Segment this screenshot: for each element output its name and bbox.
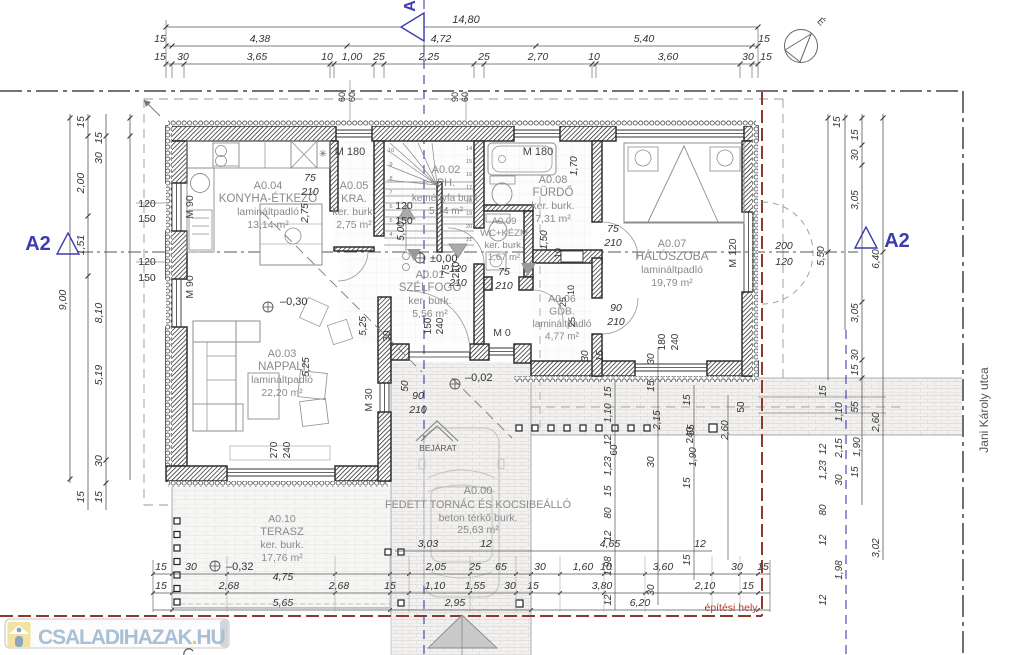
svg-text:4,72: 4,72: [431, 33, 452, 45]
svg-text:210: 210: [451, 261, 462, 278]
svg-text:15: 15: [154, 51, 166, 63]
svg-text:75: 75: [304, 172, 316, 184]
svg-text:6,40: 6,40: [871, 249, 882, 269]
svg-text:150: 150: [138, 272, 156, 284]
svg-text:1,00: 1,00: [342, 51, 363, 63]
svg-text:150: 150: [395, 215, 413, 227]
svg-text:210: 210: [603, 237, 622, 249]
svg-text:7: 7: [389, 190, 392, 196]
svg-text:2,00: 2,00: [75, 173, 87, 195]
svg-text:60: 60: [347, 92, 357, 102]
svg-text:A0.00: A0.00: [464, 485, 493, 497]
svg-text:10: 10: [321, 51, 333, 63]
svg-text:5: 5: [389, 218, 392, 224]
svg-text:15: 15: [757, 561, 769, 573]
svg-text:30: 30: [93, 152, 105, 164]
svg-text:ker. burk.: ker. burk.: [332, 206, 375, 218]
svg-text:2,25: 2,25: [418, 51, 440, 63]
svg-text:5,14 m²: 5,14 m²: [429, 206, 464, 217]
svg-text:55: 55: [850, 401, 861, 413]
svg-text:4,77 m²: 4,77 m²: [545, 332, 580, 343]
svg-text:7,31 m²: 7,31 m²: [535, 213, 571, 225]
svg-text:–0,02: –0,02: [465, 372, 493, 384]
svg-text:150: 150: [138, 213, 156, 225]
svg-text:25: 25: [567, 317, 577, 327]
svg-text:16: 16: [466, 172, 472, 178]
svg-text:15: 15: [682, 554, 693, 566]
svg-text:M 90: M 90: [184, 195, 196, 219]
svg-text:60: 60: [337, 92, 347, 102]
svg-text:15: 15: [75, 116, 87, 128]
svg-text:210: 210: [408, 404, 427, 416]
svg-text:–0,30: –0,30: [280, 296, 308, 308]
svg-text:5,50: 5,50: [816, 246, 827, 266]
svg-text:TERASZ: TERASZ: [260, 526, 304, 538]
svg-text:10: 10: [553, 248, 563, 258]
svg-text:19,79 m²: 19,79 m²: [651, 277, 693, 289]
svg-text:ker. burk.: ker. burk.: [408, 295, 451, 307]
svg-text:3,60: 3,60: [658, 51, 679, 63]
svg-text:120: 120: [395, 200, 413, 212]
svg-text:1,10: 1,10: [834, 402, 845, 422]
svg-text:8,10: 8,10: [93, 303, 105, 324]
svg-text:25: 25: [558, 297, 568, 307]
svg-text:építési hely: építési hely: [704, 602, 758, 614]
svg-text:3,02: 3,02: [871, 538, 882, 558]
svg-text:15: 15: [155, 561, 167, 573]
svg-text:lamináltpadló: lamináltpadló: [641, 264, 703, 276]
svg-text:BEJÁRAT: BEJÁRAT: [419, 443, 457, 453]
svg-text:50: 50: [736, 401, 747, 413]
svg-text:15: 15: [93, 491, 105, 503]
svg-text:9: 9: [389, 162, 392, 168]
svg-text:25: 25: [372, 51, 385, 63]
svg-text:15: 15: [155, 580, 167, 592]
svg-text:✳: ✳: [319, 149, 327, 160]
svg-text:15: 15: [466, 159, 472, 165]
svg-text:2,95: 2,95: [444, 597, 466, 609]
svg-text:1,50: 1,50: [539, 230, 550, 250]
svg-text:M 0: M 0: [493, 327, 511, 339]
svg-text:15: 15: [760, 51, 772, 63]
svg-text:30: 30: [580, 350, 591, 362]
svg-text:4,65: 4,65: [600, 538, 621, 550]
svg-text:55: 55: [686, 424, 697, 436]
svg-text:lamináltpadló: lamináltpadló: [237, 206, 299, 218]
svg-text:beton térkő burk.: beton térkő burk.: [439, 512, 518, 524]
svg-text:5,65: 5,65: [273, 597, 294, 609]
svg-text:A0.03: A0.03: [268, 348, 297, 360]
svg-text:FÜRDŐ: FÜRDŐ: [533, 185, 574, 199]
svg-text:12: 12: [818, 443, 829, 455]
svg-text:1,55: 1,55: [465, 580, 486, 592]
svg-text:A0.04: A0.04: [254, 180, 283, 192]
svg-text:15: 15: [646, 380, 657, 392]
svg-text:2,75 m²: 2,75 m²: [336, 219, 372, 231]
svg-text:1,98: 1,98: [834, 560, 845, 580]
svg-text:15: 15: [682, 394, 693, 406]
svg-text:CSALADIHAZAK.HU: CSALADIHAZAK.HU: [38, 626, 225, 649]
svg-text:21: 21: [466, 237, 472, 243]
svg-text:120: 120: [138, 198, 156, 210]
svg-text:15: 15: [93, 132, 105, 144]
svg-text:3,60: 3,60: [653, 561, 674, 573]
svg-text:6: 6: [389, 204, 392, 210]
svg-text:2,05: 2,05: [425, 561, 447, 573]
svg-text:12: 12: [818, 594, 829, 606]
svg-text:A0.10: A0.10: [268, 513, 296, 525]
svg-text:30: 30: [646, 584, 657, 596]
svg-text:2,70: 2,70: [527, 51, 549, 63]
svg-text:10: 10: [588, 51, 600, 63]
svg-text:WC+KÉZM: WC+KÉZM: [480, 228, 528, 239]
svg-text:1,23: 1,23: [603, 456, 614, 476]
svg-text:3,03: 3,03: [418, 538, 439, 550]
svg-text:M 30: M 30: [363, 388, 375, 412]
svg-text:17,76 m²: 17,76 m²: [261, 552, 303, 564]
svg-text:240: 240: [670, 333, 681, 350]
svg-text:30: 30: [646, 353, 657, 365]
svg-text:30: 30: [850, 149, 861, 161]
svg-text:12: 12: [480, 538, 492, 550]
svg-text:90: 90: [610, 302, 622, 314]
svg-text:4,75: 4,75: [273, 571, 294, 583]
svg-text:lamináltpadló: lamináltpadló: [533, 319, 592, 330]
svg-text:1,23: 1,23: [818, 460, 829, 480]
svg-text:15: 15: [818, 385, 829, 397]
svg-text:3,05: 3,05: [850, 190, 861, 210]
svg-text:NAPPALI: NAPPALI: [258, 361, 306, 373]
svg-text:PH.: PH.: [437, 177, 455, 189]
svg-text:ker. burk.: ker. burk.: [260, 539, 303, 551]
svg-text:1,10: 1,10: [603, 403, 614, 423]
svg-text:5,25: 5,25: [358, 316, 369, 336]
svg-text:M 180: M 180: [523, 146, 554, 158]
svg-text:A0.02: A0.02: [432, 164, 461, 176]
svg-text:10: 10: [388, 148, 394, 154]
svg-text:20: 20: [466, 224, 472, 230]
svg-text:–0,32: –0,32: [226, 561, 254, 573]
svg-text:30: 30: [382, 330, 393, 342]
svg-text:15: 15: [682, 477, 693, 489]
svg-text:8: 8: [389, 176, 392, 182]
svg-text:120: 120: [775, 256, 793, 268]
svg-text:2,68: 2,68: [218, 580, 240, 592]
svg-text:A2: A2: [25, 233, 51, 255]
svg-text:15: 15: [758, 33, 770, 45]
svg-text:90: 90: [450, 92, 460, 102]
svg-text:KRA.: KRA.: [341, 193, 367, 205]
svg-text:80: 80: [603, 507, 614, 519]
svg-text:240: 240: [282, 441, 293, 458]
svg-text:200: 200: [774, 240, 793, 252]
svg-text:30: 30: [534, 561, 546, 573]
svg-text:1,60: 1,60: [573, 561, 594, 573]
svg-text:30: 30: [185, 561, 197, 573]
svg-text:13,14 m²: 13,14 m²: [247, 219, 289, 231]
svg-text:240: 240: [435, 317, 446, 334]
svg-text:75: 75: [607, 223, 619, 235]
svg-text:2,60: 2,60: [720, 420, 731, 441]
svg-text:15: 15: [75, 491, 87, 503]
svg-text:3,80: 3,80: [592, 580, 613, 592]
svg-text:ker. burk.: ker. burk.: [531, 200, 574, 212]
svg-text:keményfa burk.: keményfa burk.: [412, 193, 480, 204]
svg-text:180: 180: [657, 333, 668, 350]
svg-text:A2: A2: [884, 230, 910, 252]
svg-text:A0.08: A0.08: [539, 174, 568, 186]
svg-text:15: 15: [742, 580, 754, 592]
svg-text:5,25: 5,25: [301, 357, 312, 377]
svg-text:M 180: M 180: [335, 146, 366, 158]
svg-text:3,05: 3,05: [850, 303, 861, 323]
svg-text:A: A: [402, 0, 419, 12]
svg-text:HÁLÓSZOBA: HÁLÓSZOBA: [635, 248, 708, 263]
svg-text:1,51: 1,51: [75, 235, 87, 255]
svg-text:30: 30: [742, 51, 754, 63]
svg-text:A0.09: A0.09: [492, 216, 517, 227]
svg-text:M 120: M 120: [727, 238, 739, 267]
svg-text:65: 65: [495, 561, 507, 573]
svg-text:60: 60: [460, 92, 470, 102]
svg-text:270: 270: [269, 441, 280, 458]
svg-text:12: 12: [818, 534, 829, 546]
svg-text:2,75: 2,75: [300, 203, 311, 224]
svg-text:1,90: 1,90: [688, 447, 699, 467]
svg-text:15: 15: [154, 33, 166, 45]
svg-text:Jani Károly utca: Jani Károly utca: [977, 367, 991, 453]
svg-text:15: 15: [832, 116, 843, 128]
svg-text:210: 210: [300, 186, 319, 198]
svg-text:17: 17: [466, 185, 472, 191]
svg-text:150: 150: [423, 317, 434, 334]
svg-text:4: 4: [389, 232, 392, 238]
svg-text:4,38: 4,38: [250, 33, 271, 45]
svg-text:É: É: [815, 15, 829, 29]
svg-text:9,00: 9,00: [57, 290, 69, 311]
svg-text:14: 14: [466, 146, 472, 152]
svg-text:10: 10: [566, 285, 576, 295]
svg-text:14,80: 14,80: [452, 14, 480, 26]
svg-text:ker. burk.: ker. burk.: [484, 240, 523, 251]
svg-text:12: 12: [603, 594, 614, 606]
svg-text:30: 30: [504, 580, 516, 592]
svg-text:12: 12: [694, 538, 706, 550]
svg-text:6,20: 6,20: [630, 597, 651, 609]
svg-text:75: 75: [498, 266, 510, 278]
svg-text:1,67 m²: 1,67 m²: [488, 252, 520, 263]
svg-text:19: 19: [466, 211, 472, 217]
svg-text:15: 15: [850, 364, 861, 376]
svg-text:15: 15: [595, 350, 606, 362]
svg-text:2,15: 2,15: [834, 438, 845, 459]
svg-text:12: 12: [603, 434, 614, 446]
svg-text:30: 30: [834, 474, 845, 486]
svg-text:FEDETT TORNÁC ÉS KOCSIBEÁLLÓ: FEDETT TORNÁC ÉS KOCSIBEÁLLÓ: [385, 498, 571, 511]
svg-text:30: 30: [93, 455, 105, 467]
svg-text:30: 30: [850, 349, 861, 361]
svg-text:15: 15: [850, 129, 861, 141]
svg-text:A0.05: A0.05: [340, 180, 369, 192]
svg-text:50: 50: [400, 380, 411, 392]
svg-text:1,70: 1,70: [569, 156, 580, 176]
svg-text:5,19: 5,19: [93, 365, 105, 386]
svg-text:2,15: 2,15: [652, 410, 663, 431]
svg-text:1,90: 1,90: [852, 437, 863, 457]
svg-text:25,63 m²: 25,63 m²: [457, 524, 499, 536]
svg-text:210: 210: [494, 280, 513, 292]
svg-text:22,20 m²: 22,20 m²: [261, 387, 303, 399]
svg-text:210: 210: [606, 316, 625, 328]
svg-text:30: 30: [646, 456, 657, 468]
svg-text:15: 15: [603, 485, 614, 497]
svg-text:5,40: 5,40: [634, 33, 655, 45]
svg-text:10: 10: [600, 561, 612, 573]
svg-text:M 90: M 90: [184, 275, 196, 299]
svg-text:2,60: 2,60: [871, 412, 882, 433]
svg-text:80: 80: [818, 504, 829, 516]
svg-text:30: 30: [177, 51, 189, 63]
svg-text:2,68: 2,68: [328, 580, 350, 592]
svg-text:15: 15: [850, 466, 861, 478]
svg-text:30: 30: [731, 561, 743, 573]
svg-text:15: 15: [603, 386, 614, 398]
svg-text:3,65: 3,65: [247, 51, 268, 63]
svg-text:15: 15: [527, 580, 539, 592]
svg-text:25: 25: [477, 51, 490, 63]
svg-text:90: 90: [412, 390, 424, 402]
svg-text:1,10: 1,10: [425, 580, 446, 592]
